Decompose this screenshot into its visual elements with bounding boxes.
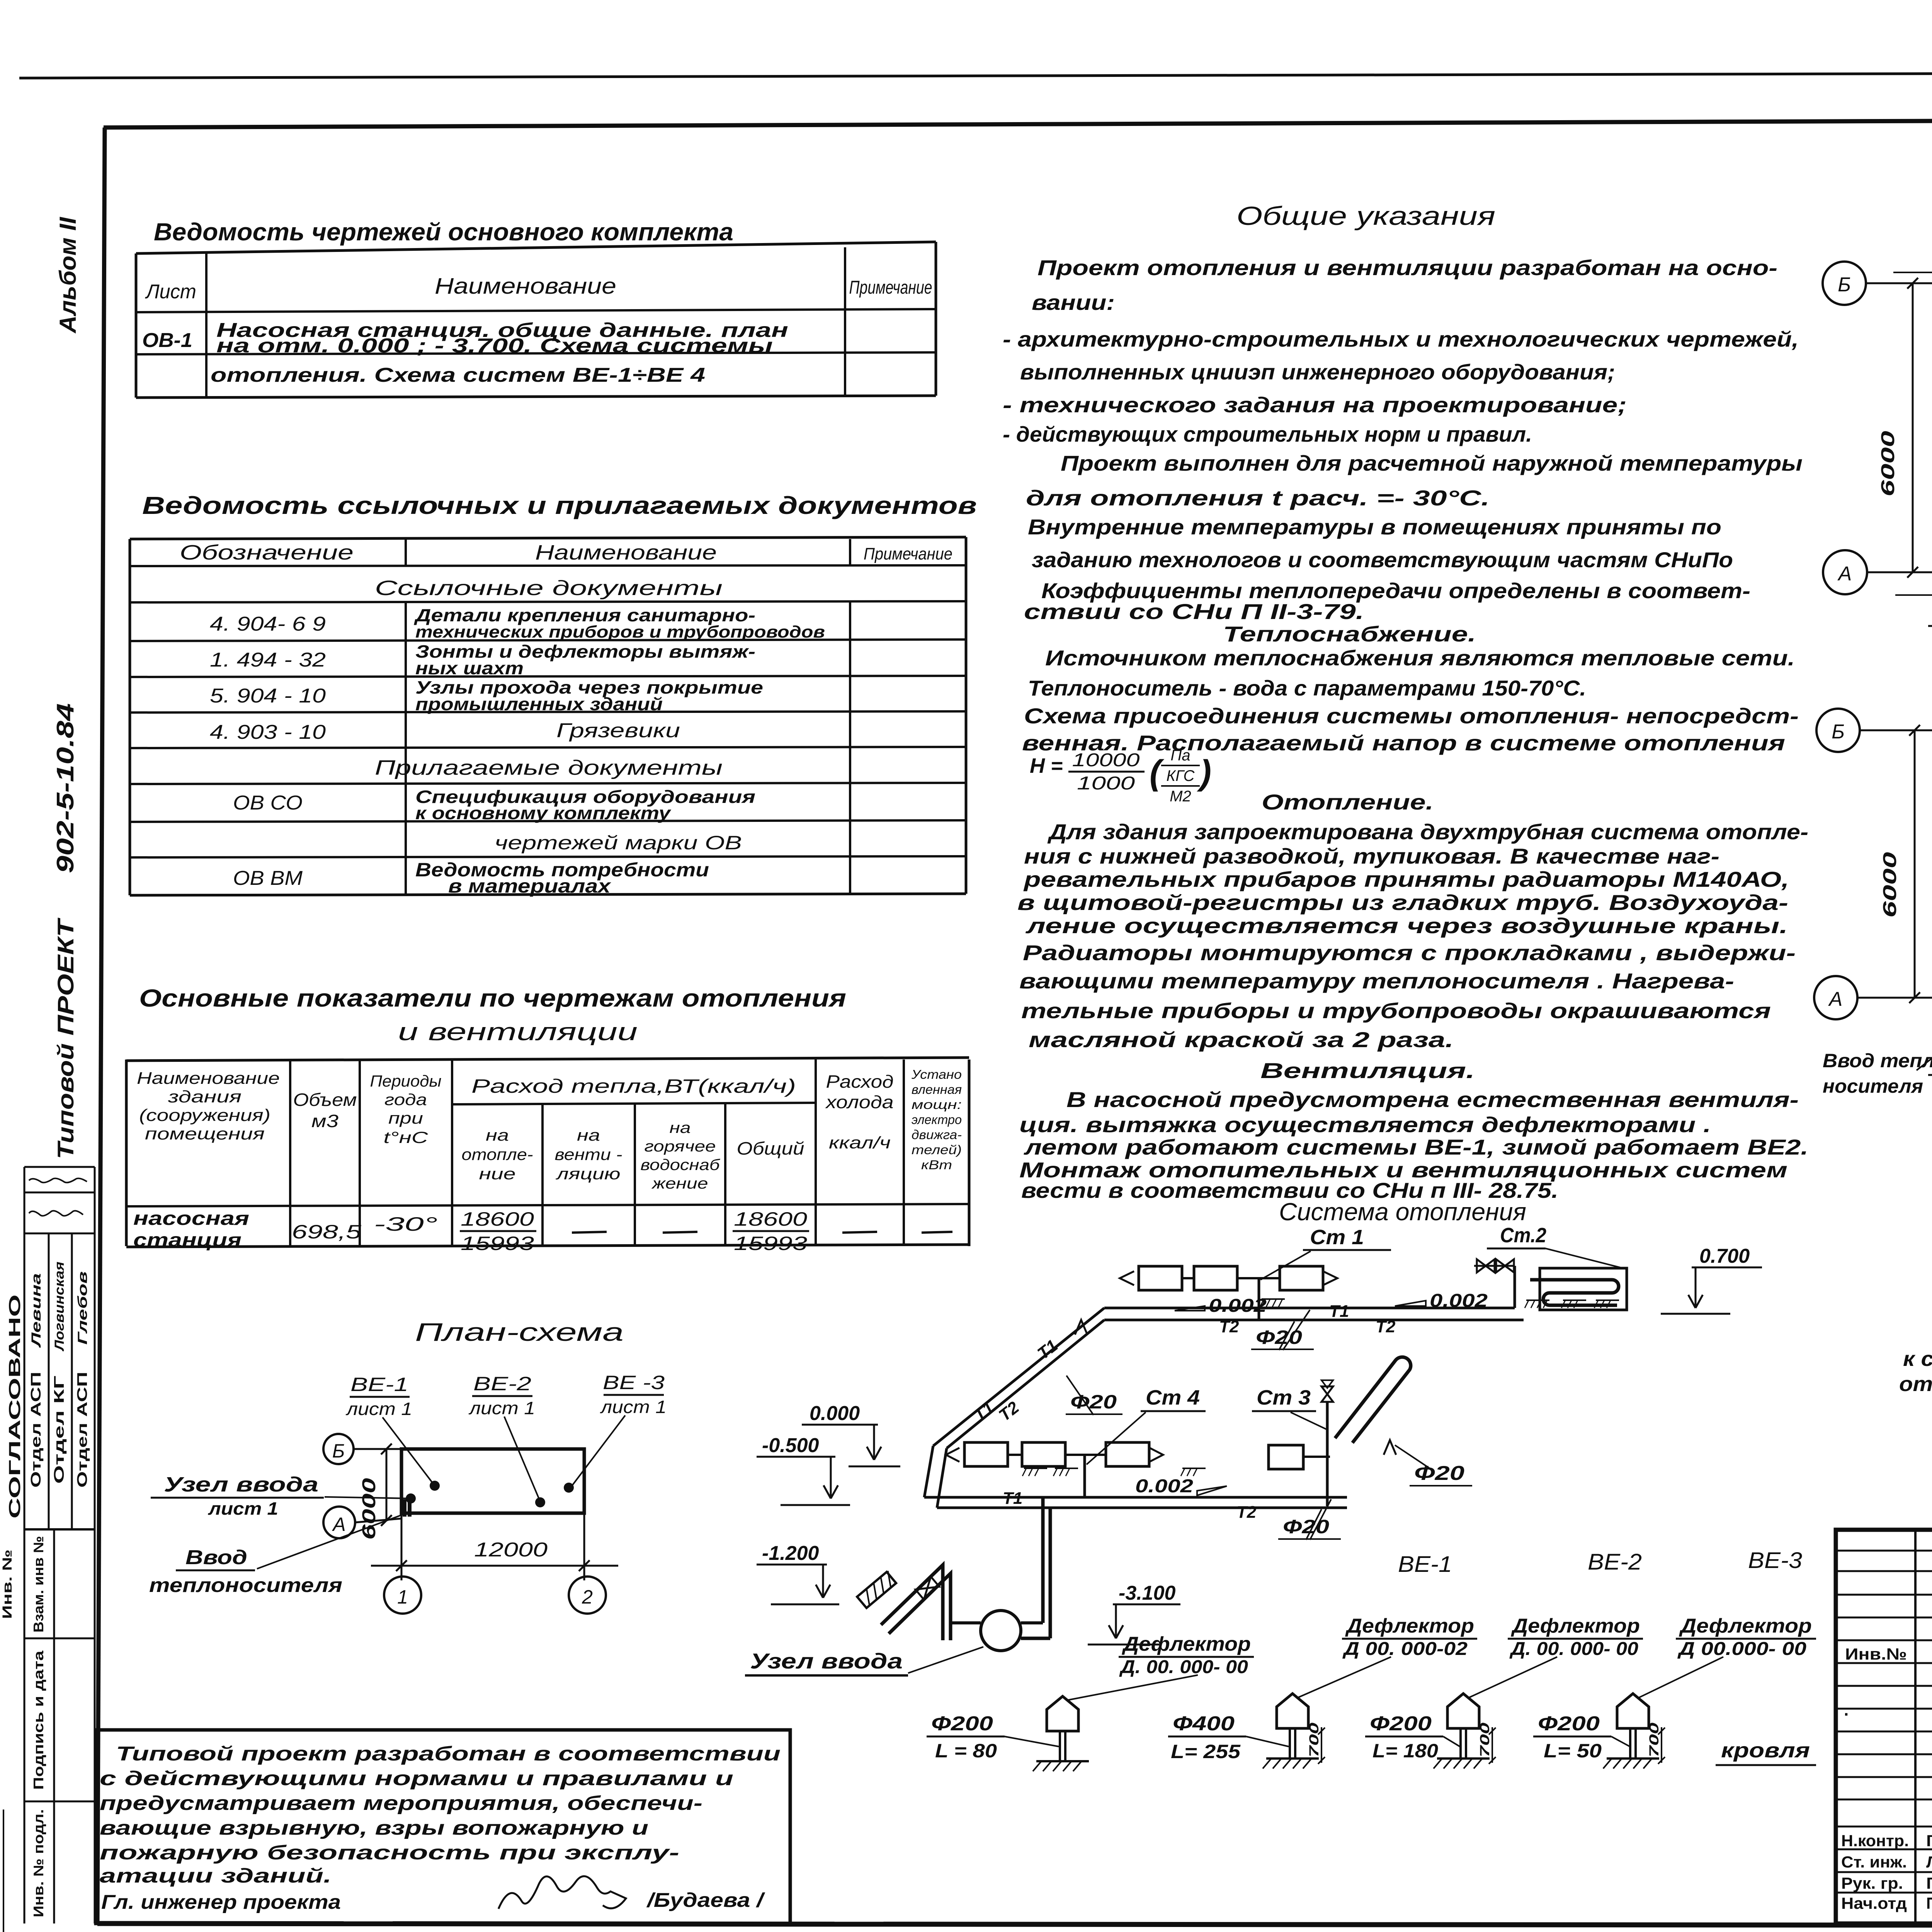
svg-text:Ф20: Ф20: [1414, 1462, 1464, 1485]
svg-text:телей): телей): [912, 1143, 962, 1157]
svg-text:ккал/ч: ккал/ч: [829, 1133, 891, 1152]
svg-text:Глебов: Глебов: [75, 1271, 90, 1345]
svg-text:ВЕ-2: ВЕ-2: [1588, 1549, 1642, 1575]
svg-text:Схема присоединения системы: Схема присоединения системы отопления- н…: [1024, 704, 1799, 728]
svg-text:при: при: [388, 1109, 423, 1127]
svg-text:10000: 10000: [1072, 750, 1140, 770]
svg-text:ОВ-1: ОВ-1: [142, 329, 192, 352]
svg-text:t°нС: t°нС: [384, 1128, 429, 1146]
svg-text:Дефлектор: Дефлектор: [1511, 1615, 1640, 1637]
svg-text:Наименование: Наименование: [535, 541, 717, 564]
svg-text:кровля: кровля: [1721, 1739, 1810, 1762]
svg-text:вании:: вании:: [1032, 290, 1115, 315]
svg-text:Б: Б: [332, 1440, 345, 1462]
svg-text:Обозначение: Обозначение: [180, 541, 354, 564]
svg-text:15993: 15993: [734, 1233, 807, 1254]
svg-text:А: А: [332, 1514, 345, 1535]
svg-text:-0.500: -0.500: [762, 1434, 819, 1457]
svg-text:лист 1: лист 1: [208, 1498, 278, 1519]
svg-text:ция. вытяжка осуществляется: ция. вытяжка осуществляется дефлекторами…: [1019, 1112, 1711, 1137]
svg-text:Для здания запроектирована: Для здания запроектирована двухтрубная с…: [1047, 820, 1808, 844]
svg-text:Ф200: Ф200: [1538, 1713, 1600, 1735]
svg-text:Ст.2: Ст.2: [1500, 1224, 1546, 1247]
svg-text:0.002: 0.002: [1209, 1296, 1267, 1316]
svg-text:Теплоснабжение.: Теплоснабжение.: [1223, 622, 1476, 646]
svg-text:Инв. №: Инв. №: [0, 1549, 15, 1619]
svg-text:движга-: движга-: [912, 1128, 962, 1142]
svg-text:Отдел АСП: Отдел АСП: [28, 1372, 44, 1488]
svg-text:Дефлектор: Дефлектор: [1122, 1633, 1251, 1655]
svg-text:Логинов: Логинов: [1926, 1853, 1932, 1871]
svg-text:теплоносителя: теплоносителя: [149, 1574, 342, 1597]
svg-text:Типовой проект разработан: Типовой проект разработан в соответствии: [116, 1743, 781, 1765]
svg-text:летом работают системы ВЕ-1: летом работают системы ВЕ-1, зимой работ…: [1023, 1135, 1808, 1159]
svg-text:станция: станция: [133, 1229, 241, 1251]
svg-text:Д 00.000- 00: Д 00.000- 00: [1677, 1639, 1806, 1659]
svg-text:ствии со СНи П II-3-79.: ствии со СНи П II-3-79.: [1024, 599, 1364, 624]
svg-text:Ст. инж.: Ст. инж.: [1841, 1853, 1907, 1871]
svg-text:Узел ввода: Узел ввода: [750, 1649, 903, 1673]
svg-text:700: 700: [1307, 1723, 1321, 1757]
svg-text:Расход тепла,ВТ(ккал/ч): Расход тепла,ВТ(ккал/ч): [471, 1075, 796, 1097]
svg-text:Дефлектор: Дефлектор: [1679, 1615, 1812, 1637]
svg-text:масляной краской за 2 раза: масляной краской за 2 раза.: [1029, 1027, 1454, 1052]
svg-text:носителя: носителя: [1823, 1075, 1923, 1097]
svg-text:- архитектурно-строительных и: - архитектурно-строительных и технологич…: [1003, 327, 1799, 351]
svg-text:Ввод: Ввод: [185, 1546, 247, 1569]
svg-text:698,5: 698,5: [292, 1221, 361, 1243]
svg-text:Подпись и дата: Подпись и дата: [31, 1650, 46, 1790]
svg-text:тельные приборы и трубопро: тельные приборы и трубопроводы окрашиваю…: [1021, 998, 1771, 1023]
svg-text:5. 904 - 10: 5. 904 - 10: [210, 685, 326, 707]
svg-text:ревательных прибаров принят: ревательных прибаров приняты радиаторы М…: [1023, 867, 1789, 891]
svg-text:Объем: Объем: [293, 1090, 357, 1110]
svg-text:ляцию: ляцию: [555, 1165, 621, 1183]
svg-text:L= 50: L= 50: [1544, 1740, 1602, 1762]
svg-text:12000: 12000: [474, 1539, 548, 1561]
svg-text:-1.200: -1.200: [762, 1542, 819, 1565]
svg-text:на: на: [577, 1126, 600, 1144]
svg-text:в щитовой-регистры из гладк: в щитовой-регистры из гладких труб. Возд…: [1017, 890, 1788, 915]
svg-text:L = 80: L = 80: [935, 1740, 997, 1762]
svg-text:Б: Б: [1838, 274, 1851, 296]
svg-text:4. 903 - 10: 4. 903 - 10: [210, 721, 326, 743]
svg-text:Радиаторы монтируются с пр: Радиаторы монтируются с прокладками , вы…: [1023, 940, 1796, 965]
svg-text:холода: холода: [825, 1092, 893, 1112]
svg-text:года: года: [384, 1090, 427, 1109]
svg-text:Ссылочные документы: Ссылочные документы: [375, 577, 723, 600]
svg-text:700: 700: [1478, 1723, 1492, 1757]
svg-text:Д. 00. 000- 00: Д. 00. 000- 00: [1509, 1639, 1639, 1659]
svg-text:отопления. Схема систем ВЕ: отопления. Схема систем ВЕ-1÷ВЕ 4: [211, 364, 705, 386]
svg-text:предусматривает мероприятия,: предусматривает мероприятия, обеспечи-: [100, 1792, 702, 1815]
svg-text:Грачева: Грачева: [1926, 1832, 1932, 1850]
svg-text:Основные показатели по черт: Основные показатели по чертежам отоплени…: [139, 984, 846, 1012]
svg-text:и вентиляции: и вентиляции: [398, 1018, 638, 1046]
svg-text:отопления: отопления: [1899, 1372, 1932, 1396]
svg-text:15993: 15993: [461, 1233, 534, 1254]
svg-text:на отм. 0.000 ; - 3.700. С: на отм. 0.000 ; - 3.700. Схема системы: [216, 335, 773, 357]
svg-text:.: .: [1844, 1701, 1849, 1719]
svg-text:Инв. № подл.: Инв. № подл.: [31, 1809, 46, 1917]
svg-text:электро: электро: [912, 1112, 962, 1127]
svg-text:Грязевики: Грязевики: [556, 719, 680, 742]
svg-text:Ф400: Ф400: [1173, 1713, 1235, 1735]
svg-text:- действующих строительных н: - действующих строительных норм и правил…: [1003, 422, 1532, 446]
svg-text:Ввод тепло-: Ввод тепло-: [1823, 1050, 1932, 1071]
svg-text:Дефлектор: Дефлектор: [1345, 1615, 1474, 1637]
svg-text:0.000: 0.000: [810, 1402, 860, 1425]
svg-text:лист 1: лист 1: [468, 1398, 535, 1418]
svg-text:вленная: вленная: [912, 1082, 962, 1097]
svg-text:Платонов: Платонов: [1926, 1894, 1932, 1912]
svg-text:мощн:: мощн:: [912, 1097, 962, 1112]
svg-text:0.700: 0.700: [1699, 1245, 1750, 1267]
svg-text:выполненных цнииэп инженерног: выполненных цнииэп инженерного оборудова…: [1020, 360, 1615, 384]
svg-text:Н =: Н =: [1030, 754, 1063, 777]
svg-text:18600: 18600: [734, 1208, 807, 1230]
svg-text:Вентиляция.: Вентиляция.: [1260, 1058, 1475, 1083]
svg-text:вающие взрывную, взры вопожар: вающие взрывную, взры вопожарную и: [100, 1817, 648, 1839]
svg-text:Наименование: Наименование: [435, 274, 616, 299]
svg-text:Примечание: Примечание: [864, 544, 952, 563]
svg-text:Рук. гр.: Рук. гр.: [1841, 1874, 1903, 1892]
svg-text:18600: 18600: [461, 1208, 534, 1230]
svg-text:1. 494 - 32: 1. 494 - 32: [210, 649, 326, 671]
svg-text:М2: М2: [1170, 788, 1191, 805]
svg-text:План-схема: План-схема: [415, 1318, 624, 1346]
svg-text:Т2: Т2: [1376, 1317, 1396, 1336]
svg-text:Альбом II: Альбом II: [55, 217, 81, 334]
svg-text:Отдел АСП: Отдел АСП: [74, 1372, 90, 1488]
svg-text:горячее: горячее: [645, 1138, 716, 1155]
svg-text:Теплоноситель - вода с параме: Теплоноситель - вода с параметрами 150-7…: [1028, 676, 1586, 700]
svg-text:А: А: [1828, 988, 1843, 1010]
svg-text:Т1: Т1: [1003, 1489, 1022, 1508]
svg-text:Т1: Т1: [1329, 1302, 1349, 1321]
svg-text:Нач.отд: Нач.отд: [1841, 1894, 1907, 1912]
svg-text:промышленных зданий: промышленных зданий: [415, 694, 663, 714]
svg-text:А: А: [1837, 563, 1852, 585]
svg-text:ния с нижней разводкой, ту: ния с нижней разводкой, тупиковая. В кач…: [1024, 844, 1719, 868]
svg-text:Общие указания: Общие указания: [1236, 201, 1495, 231]
svg-text:в материалах: в материалах: [448, 875, 612, 897]
svg-text:венти -: венти -: [555, 1145, 622, 1163]
svg-text:6000: 6000: [1880, 852, 1900, 918]
svg-text:L= 255: L= 255: [1171, 1741, 1241, 1762]
svg-text:Ведомость чертежей основног: Ведомость чертежей основного комплекта: [154, 218, 733, 246]
svg-text:Проект выполнен для расчетно: Проект выполнен для расчетной наружной т…: [1061, 451, 1803, 475]
svg-text:здания: здания: [168, 1087, 241, 1106]
svg-text:Ф200: Ф200: [931, 1713, 993, 1735]
svg-text:лист 1: лист 1: [345, 1399, 412, 1419]
svg-text:чертежей марки ОВ: чертежей марки ОВ: [495, 832, 742, 854]
svg-text:- технического задания на п: - технического задания на проектирование…: [1003, 393, 1627, 417]
svg-text:СОГЛАСОВАНО: СОГЛАСОВАНО: [5, 1294, 24, 1519]
svg-text:Периоды: Периоды: [370, 1072, 442, 1090]
svg-text:Ст 4: Ст 4: [1146, 1386, 1200, 1409]
svg-text:4. 904- 6 9: 4. 904- 6 9: [210, 613, 326, 635]
svg-text:ВЕ-2: ВЕ-2: [473, 1373, 531, 1395]
svg-text:помещения: помещения: [145, 1124, 265, 1143]
svg-text:на: на: [670, 1119, 691, 1136]
svg-text:насосная: насосная: [133, 1207, 249, 1229]
svg-text:к системе: к системе: [1903, 1347, 1932, 1371]
svg-text:Б: Б: [1832, 721, 1845, 743]
svg-text:Проект отопления и вентиляц: Проект отопления и вентиляции разработан…: [1037, 255, 1777, 280]
svg-text:Ведомость ссылочных и прилаг: Ведомость ссылочных и прилагаемых докуме…: [142, 492, 977, 519]
svg-text:пожарную безопасность пр: пожарную безопасность при эксплу-: [100, 1842, 679, 1864]
svg-text:Устано: Устано: [911, 1067, 962, 1082]
svg-text:для отопления t расч. =-: для отопления t расч. =- 30°С.: [1026, 486, 1490, 510]
svg-text:Внутренние температуры в пом: Внутренние температуры в помещениях прин…: [1028, 515, 1721, 539]
svg-text:жение: жение: [651, 1175, 708, 1192]
svg-text:Взам. инв №: Взам. инв №: [31, 1536, 46, 1633]
svg-text:Типовой: Типовой: [53, 1043, 78, 1159]
svg-text:кВт: кВт: [921, 1158, 952, 1172]
svg-text:ние: ние: [479, 1165, 516, 1183]
svg-text:Система отопления: Система отопления: [1279, 1198, 1526, 1226]
svg-text:ВЕ-1: ВЕ-1: [350, 1374, 408, 1395]
svg-text:Левина: Левина: [29, 1273, 44, 1349]
svg-text:атации зданий.: атации зданий.: [100, 1865, 332, 1887]
svg-text:L= 180: L= 180: [1372, 1740, 1438, 1762]
svg-text:на: на: [486, 1126, 509, 1144]
svg-text:/Будаева /: /Будаева /: [646, 1889, 766, 1912]
svg-text:Гл. инженер проекта: Гл. инженер проекта: [101, 1891, 341, 1913]
svg-text:1: 1: [397, 1586, 408, 1608]
svg-text:-3.100: -3.100: [1119, 1582, 1176, 1604]
svg-text:ОВ СО: ОВ СО: [233, 792, 303, 814]
svg-text:0.002: 0.002: [1135, 1476, 1193, 1497]
svg-text:Прилагаемые документы: Прилагаемые документы: [375, 756, 723, 779]
svg-text:Ст 1: Ст 1: [1310, 1226, 1364, 1249]
svg-text:Ф20: Ф20: [1283, 1516, 1329, 1537]
svg-text:Примечание: Примечание: [849, 277, 932, 298]
svg-text:КГС: КГС: [1167, 767, 1195, 784]
svg-text:водоснаб: водоснаб: [641, 1156, 721, 1173]
svg-text:ВЕ-3: ВЕ-3: [1748, 1548, 1802, 1573]
svg-text:Логвинская: Логвинская: [52, 1262, 67, 1352]
svg-text:Ф20: Ф20: [1256, 1327, 1302, 1348]
svg-text:Узел ввода: Узел ввода: [164, 1473, 318, 1496]
svg-text:Ф200: Ф200: [1370, 1713, 1432, 1735]
svg-text:1000: 1000: [1077, 773, 1135, 794]
svg-text:Расход: Расход: [826, 1071, 894, 1092]
svg-text:ВЕ -3: ВЕ -3: [603, 1372, 665, 1393]
svg-text:-30°: -30°: [374, 1213, 438, 1235]
svg-text:Т2: Т2: [1219, 1317, 1239, 1336]
svg-text:6000: 6000: [1878, 431, 1898, 497]
svg-text:Д 00. 000-02: Д 00. 000-02: [1342, 1639, 1468, 1659]
svg-text:Отопление.: Отопление.: [1262, 790, 1434, 814]
svg-text:Общий: Общий: [737, 1138, 804, 1158]
svg-text:ОВ ВМ: ОВ ВМ: [233, 867, 303, 889]
svg-text:700: 700: [1647, 1723, 1662, 1757]
svg-text:902-5-10.84: 902-5-10.84: [52, 703, 79, 873]
svg-text:к основному комплекту: к основному комплекту: [415, 803, 672, 823]
svg-text:ление осуществляется через: ление осуществляется через воздушные кра…: [1025, 913, 1788, 938]
svg-text:м3: м3: [311, 1111, 339, 1131]
svg-text:Инв.№: Инв.№: [1845, 1645, 1907, 1663]
svg-text:ных шахт: ных шахт: [415, 658, 524, 678]
svg-text:лист 1: лист 1: [600, 1397, 667, 1417]
svg-text:Т2: Т2: [1236, 1503, 1257, 1522]
svg-text:ВЕ-1: ВЕ-1: [1398, 1552, 1452, 1577]
svg-text:Наименование: Наименование: [137, 1069, 280, 1088]
svg-text:Отдел КГ: Отдел КГ: [51, 1376, 67, 1484]
svg-text:(сооружения): (сооружения): [139, 1106, 270, 1125]
svg-text:вающими температуру теплон: вающими температуру теплоносителя . Нагр…: [1019, 969, 1734, 993]
svg-text:2: 2: [582, 1586, 593, 1608]
svg-text:Грачева: Грачева: [1926, 1874, 1932, 1892]
svg-text:Лист: Лист: [145, 281, 196, 303]
svg-text:Источником теплоснабжения яв: Источником теплоснабжения являются тепло…: [1045, 646, 1795, 670]
svg-text:Н.контр.: Н.контр.: [1841, 1832, 1909, 1850]
svg-text:отопле-: отопле-: [462, 1145, 533, 1163]
svg-text:ПРОЕКТ: ПРОЕКТ: [53, 917, 78, 1036]
svg-text:Д. 00. 000- 00: Д. 00. 000- 00: [1119, 1657, 1248, 1677]
svg-text:заданию технологов и соответ: заданию технологов и соответствующим час…: [1032, 548, 1733, 572]
svg-text:Па: Па: [1170, 747, 1190, 764]
svg-text:В насосной предусмотрена: В насосной предусмотрена естественная ве…: [1066, 1087, 1799, 1112]
svg-text:Ф20: Ф20: [1070, 1391, 1117, 1413]
svg-text:технических приборов и трубопр: технических приборов и трубопроводов: [415, 622, 825, 641]
svg-text:с действующими нормами и пр: с действующими нормами и правилами и: [100, 1767, 733, 1790]
svg-text:Ст 3: Ст 3: [1257, 1386, 1311, 1409]
